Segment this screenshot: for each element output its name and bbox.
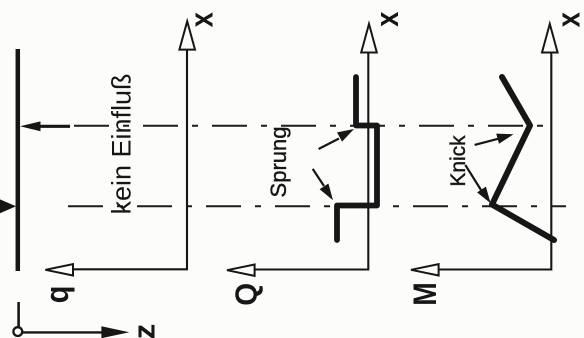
svg-text:x: x — [184, 12, 220, 28]
svg-text:Sprung: Sprung — [266, 127, 291, 198]
svg-text:Knick: Knick — [447, 135, 470, 187]
svg-text:x: x — [370, 11, 406, 27]
svg-text:q: q — [40, 286, 76, 304]
svg-text:Q: Q — [230, 283, 264, 306]
svg-text:x: x — [551, 12, 584, 28]
svg-text:kein Einfluß: kein Einfluß — [107, 73, 137, 214]
svg-text:M: M — [408, 282, 443, 305]
svg-text:z: z — [127, 324, 162, 338]
